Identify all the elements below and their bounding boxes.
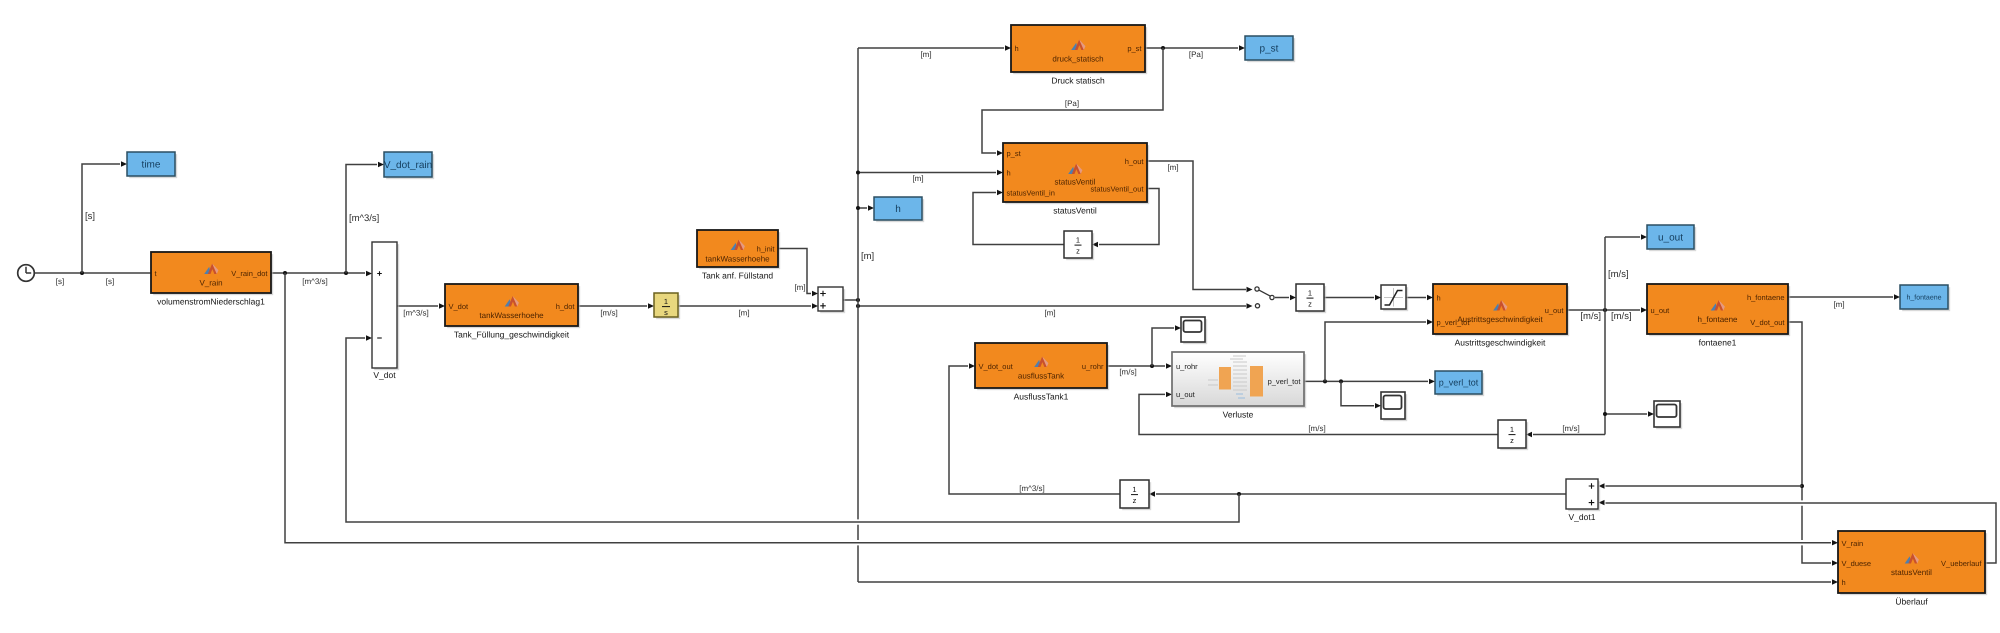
- svg-text:Überlauf: Überlauf: [1895, 597, 1928, 607]
- svg-text:tankWasserhoehe: tankWasserhoehe: [705, 255, 770, 264]
- svg-text:statusVentil: statusVentil: [1055, 178, 1096, 187]
- svg-text:V_dot_out: V_dot_out: [979, 362, 1014, 371]
- svg-text:V_rain_dot: V_rain_dot: [231, 269, 268, 278]
- svg-text:time: time: [142, 160, 161, 171]
- svg-text:[m/s]: [m/s]: [1580, 311, 1601, 322]
- svg-text:V_dot_out: V_dot_out: [1750, 318, 1785, 327]
- svg-text:V_rain: V_rain: [1842, 539, 1864, 548]
- svg-text:p_verl_tot: p_verl_tot: [1437, 318, 1471, 327]
- svg-text:s: s: [664, 308, 668, 317]
- svg-text:z: z: [1510, 436, 1514, 445]
- svg-text:[s]: [s]: [56, 277, 64, 286]
- svg-text:[m]: [m]: [912, 174, 923, 183]
- svg-text:V_ueberlauf: V_ueberlauf: [1941, 559, 1982, 568]
- svg-text:Druck statisch: Druck statisch: [1051, 76, 1105, 86]
- svg-text:statusVentil: statusVentil: [1053, 206, 1097, 216]
- svg-text:u_rohr: u_rohr: [1176, 362, 1198, 371]
- svg-text:AusflussTank1: AusflussTank1: [1014, 392, 1069, 402]
- svg-text:Austrittsgeschwindigkeit: Austrittsgeschwindigkeit: [1457, 315, 1543, 324]
- svg-text:h: h: [895, 204, 901, 215]
- svg-text:tankWasserhoehe: tankWasserhoehe: [479, 311, 544, 320]
- svg-text:u_out: u_out: [1658, 233, 1683, 244]
- svg-text:volumenstromNiederschlag1: volumenstromNiederschlag1: [157, 297, 265, 307]
- svg-text:1: 1: [1132, 485, 1136, 494]
- svg-text:z: z: [1133, 496, 1137, 505]
- svg-text:p_st: p_st: [1007, 149, 1022, 158]
- svg-text:[m/s]: [m/s]: [1308, 424, 1325, 433]
- svg-text:[m]: [m]: [861, 251, 874, 262]
- svg-text:druck_statisch: druck_statisch: [1052, 55, 1103, 64]
- svg-text:u_out: u_out: [1176, 390, 1196, 399]
- svg-text:[m]: [m]: [920, 50, 931, 59]
- svg-text:z: z: [1308, 299, 1312, 308]
- svg-text:V_dot: V_dot: [449, 302, 470, 311]
- svg-text:[m]: [m]: [1167, 163, 1178, 172]
- svg-text:[m]: [m]: [738, 309, 749, 318]
- svg-text:h: h: [1015, 44, 1019, 53]
- svg-text:[m/s]: [m/s]: [1608, 269, 1629, 280]
- svg-text:V_dot: V_dot: [373, 370, 396, 380]
- svg-text:[m^3/s]: [m^3/s]: [403, 309, 429, 318]
- svg-text:p_st: p_st: [1260, 44, 1279, 55]
- svg-text:h_dot: h_dot: [556, 302, 576, 311]
- svg-text:V_duese: V_duese: [1842, 559, 1872, 568]
- svg-text:[m]: [m]: [1044, 309, 1055, 318]
- svg-text:Tank_Füllung_geschwindigkeit: Tank_Füllung_geschwindigkeit: [454, 330, 570, 340]
- svg-text:Tank anf. Füllstand: Tank anf. Füllstand: [702, 271, 774, 281]
- svg-text:1: 1: [1510, 425, 1514, 434]
- svg-text:[m^3/s]: [m^3/s]: [349, 213, 379, 224]
- svg-text:[m/s]: [m/s]: [600, 309, 617, 318]
- svg-text:[s]: [s]: [106, 277, 114, 286]
- svg-text:[m^3/s]: [m^3/s]: [302, 277, 328, 286]
- svg-text:h_fontaene: h_fontaene: [1906, 294, 1941, 302]
- svg-text:h_fontaene: h_fontaene: [1697, 315, 1738, 324]
- svg-text:h: h: [1842, 578, 1846, 587]
- svg-text:[m/s]: [m/s]: [1611, 311, 1632, 322]
- svg-text:Austrittsgeschwindigkeit: Austrittsgeschwindigkeit: [1455, 338, 1546, 348]
- svg-text:statusVentil: statusVentil: [1891, 568, 1932, 577]
- svg-text:[m]: [m]: [794, 283, 805, 292]
- svg-text:fontaene1: fontaene1: [1699, 338, 1737, 348]
- svg-text:p_verl_tot: p_verl_tot: [1439, 378, 1479, 388]
- svg-text:p_st: p_st: [1127, 44, 1142, 53]
- svg-text:u_rohr: u_rohr: [1082, 362, 1104, 371]
- svg-text:[m/s]: [m/s]: [1119, 368, 1136, 377]
- svg-text:[Pa]: [Pa]: [1189, 50, 1203, 59]
- svg-text:V_dot_rain: V_dot_rain: [384, 160, 432, 171]
- svg-text:1: 1: [1076, 235, 1080, 244]
- svg-text:1: 1: [664, 297, 668, 306]
- svg-text:[m]: [m]: [1833, 300, 1844, 309]
- svg-text:[m^3/s]: [m^3/s]: [1019, 484, 1045, 493]
- svg-text:1: 1: [1308, 288, 1312, 297]
- svg-text:[Pa]: [Pa]: [1065, 99, 1079, 108]
- svg-text:u_out: u_out: [1651, 306, 1671, 315]
- svg-text:h_out: h_out: [1125, 157, 1145, 166]
- svg-text:V_dot1: V_dot1: [1569, 512, 1596, 522]
- svg-text:h_init: h_init: [757, 244, 776, 253]
- svg-text:h: h: [1437, 293, 1441, 302]
- svg-text:p_verl_tot: p_verl_tot: [1268, 377, 1302, 386]
- svg-text:h_fontaene: h_fontaene: [1747, 293, 1785, 302]
- svg-text:[m/s]: [m/s]: [1562, 424, 1579, 433]
- svg-text:Verluste: Verluste: [1223, 410, 1254, 420]
- svg-text:h: h: [1007, 168, 1011, 177]
- svg-text:statusVentil_in: statusVentil_in: [1007, 188, 1055, 197]
- svg-text:u_out: u_out: [1545, 306, 1565, 315]
- svg-text:z: z: [1076, 246, 1080, 255]
- svg-text:V_rain: V_rain: [199, 279, 222, 288]
- svg-text:ausflussTank: ausflussTank: [1018, 372, 1065, 381]
- svg-text:statusVentil_out: statusVentil_out: [1091, 184, 1145, 193]
- svg-text:[s]: [s]: [85, 211, 95, 222]
